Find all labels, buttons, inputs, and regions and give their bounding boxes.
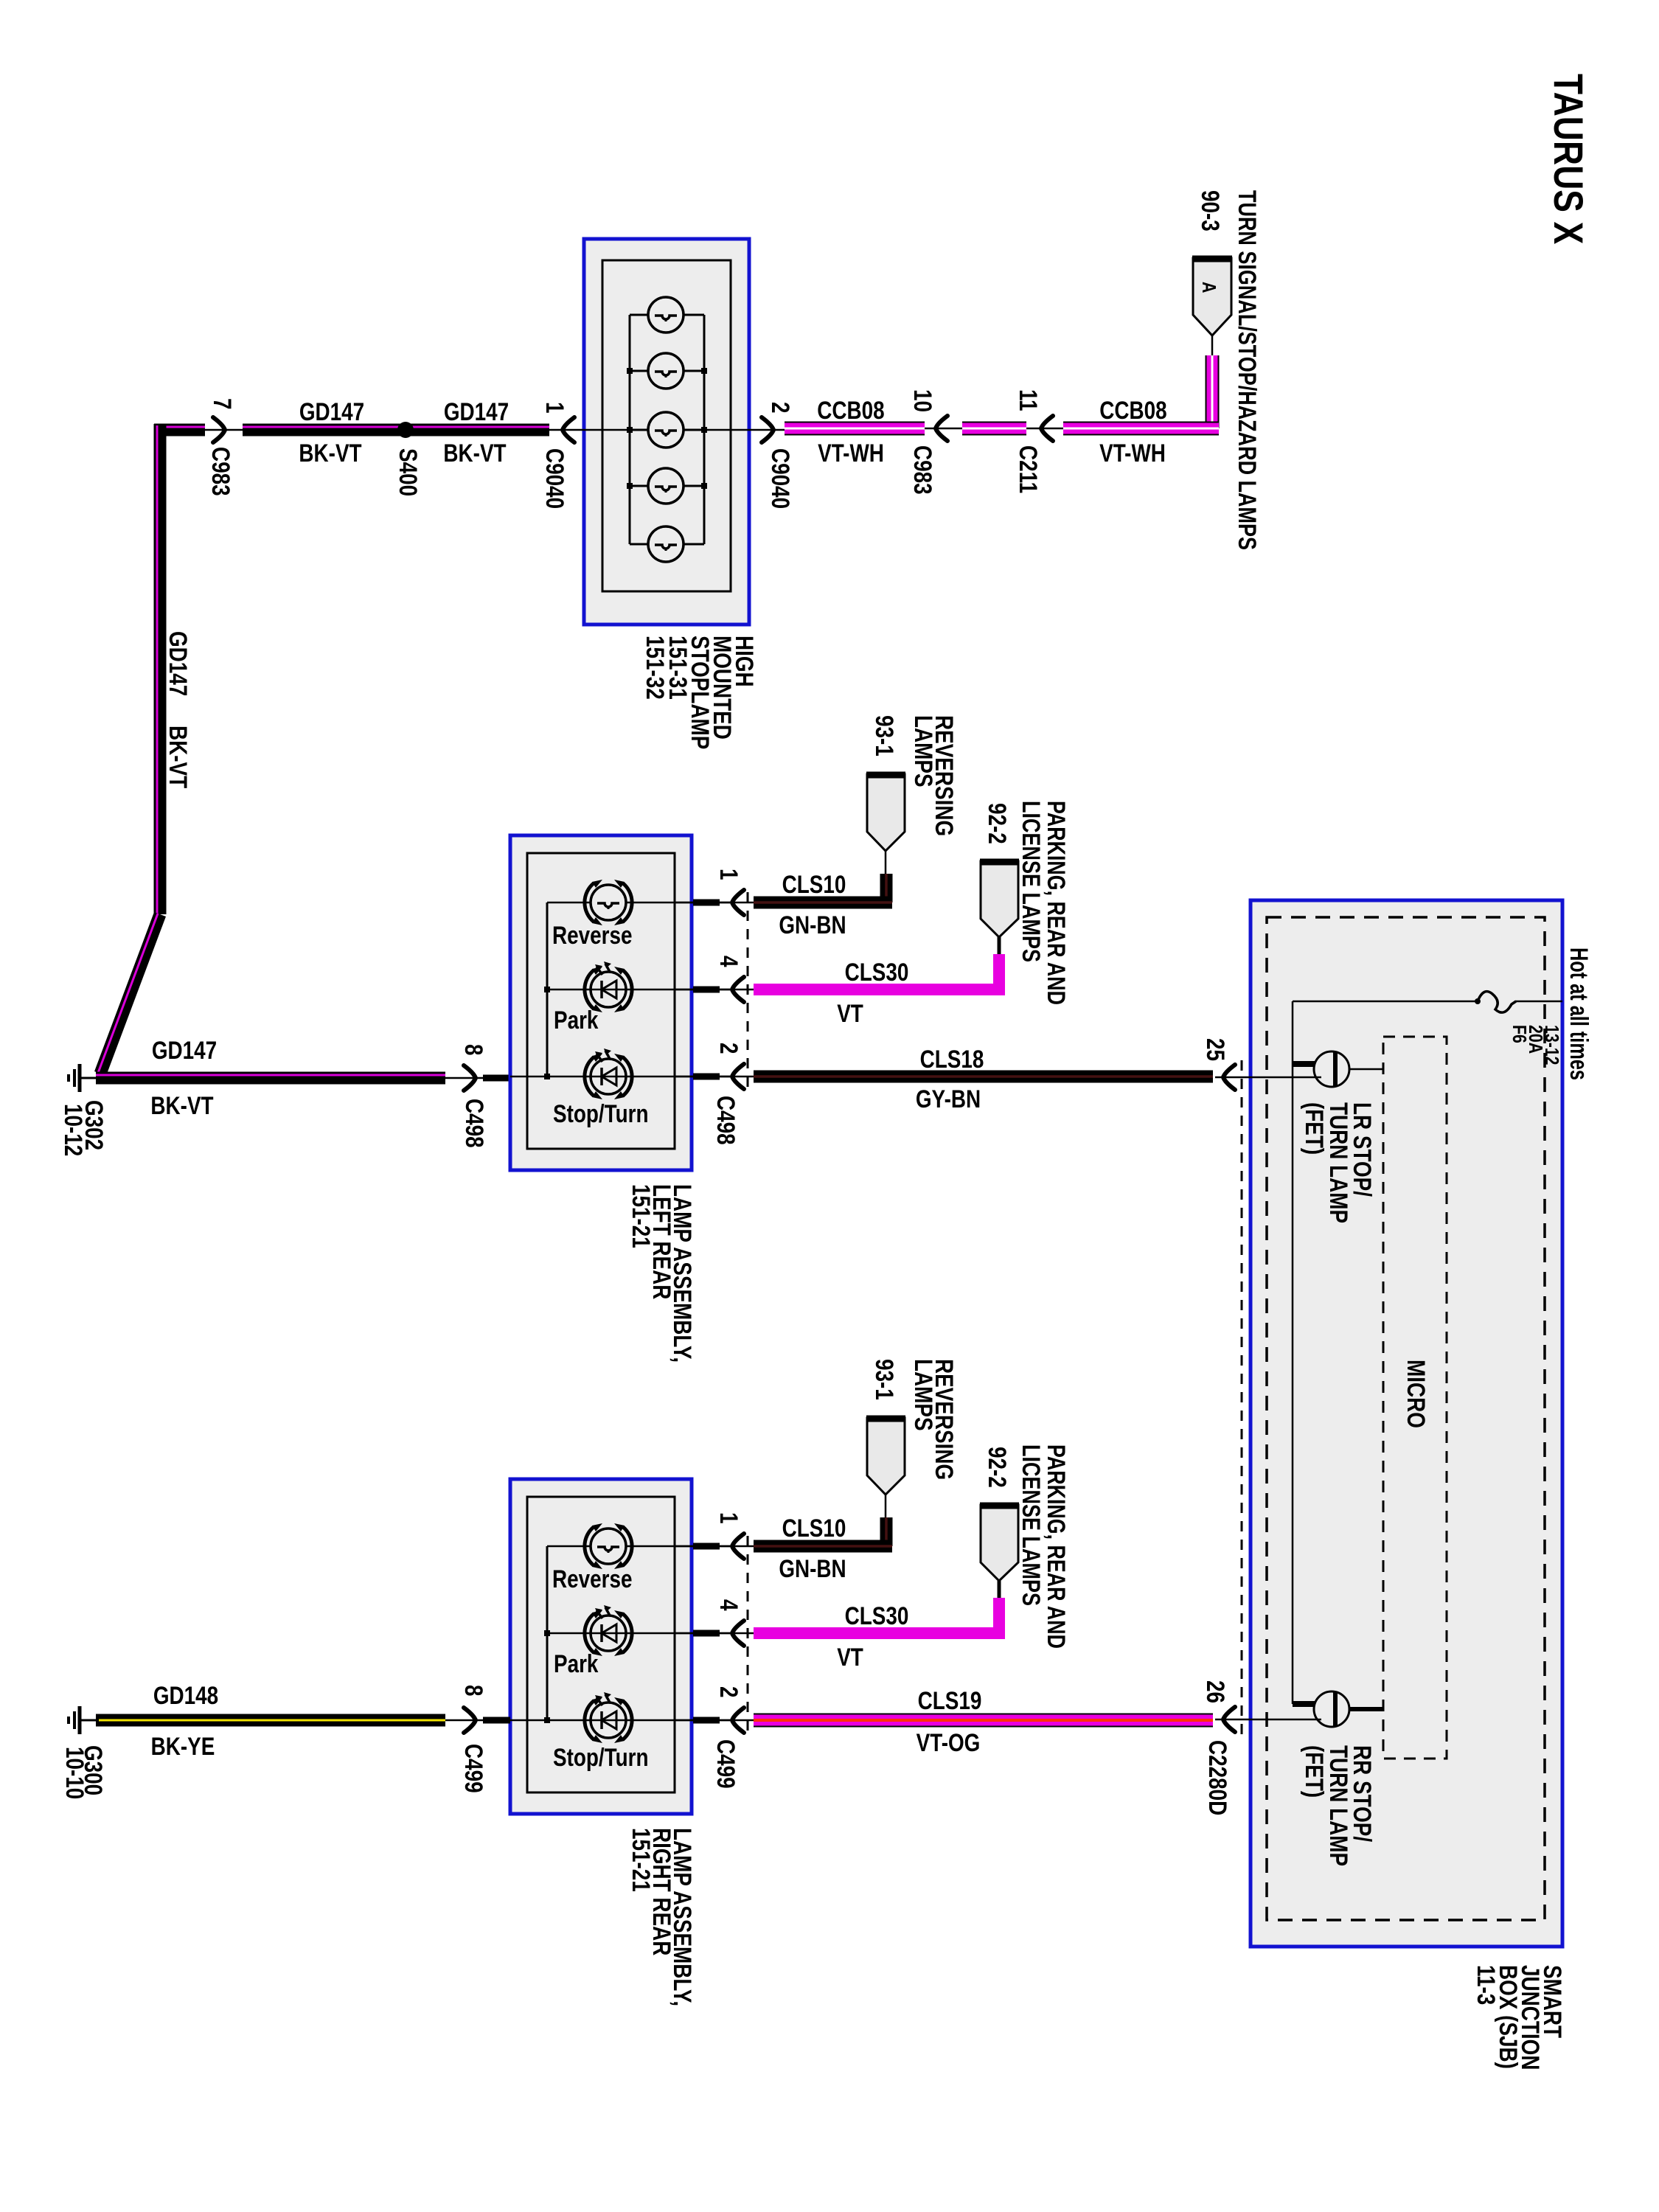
svg-text:93-1: 93-1 [870,715,898,757]
wire CLS30 VT [993,1598,1005,1633]
wire GD147 left vertical [154,424,167,914]
svg-text:C498: C498 [460,1099,488,1148]
wire CCB08 middle segment [962,422,1026,436]
feed line through box [584,429,630,431]
MICRO dashed box [1383,1037,1447,1759]
feed line [1515,1001,1562,1003]
svg-text:(FET): (FET) [1300,1102,1328,1155]
flag: PARKING REAR AND LICENSE LAMPS 92-2 [981,1505,1018,1581]
svg-text:BK-VT: BK-VT [150,1091,213,1119]
svg-text:C498: C498 [712,1096,740,1145]
svg-text:C983: C983 [206,447,234,496]
svg-text:Park: Park [554,1006,599,1034]
svg-text:93-1: 93-1 [870,1359,898,1400]
svg-text:2: 2 [766,402,794,414]
connector dashed line [747,1536,749,1736]
component box: high mounted stoplamp [584,239,749,625]
stop/turn LED [591,1703,626,1738]
bulb lamp y=738 [648,526,684,562]
wire CCB08 VT-WH vertical from flag [1206,355,1220,428]
flag: REVERSING LAMPS 93-1 [867,1418,905,1495]
svg-text:GD147: GD147 [299,397,364,425]
svg-text:TAURUS X: TAURUS X [1545,74,1591,244]
svg-text:VT: VT [837,999,863,1027]
svg-text:BK-VT: BK-VT [299,439,361,467]
svg-text:VT-WH: VT-WH [1099,439,1166,467]
svg-text:PARKING, REAR AND: PARKING, REAR AND [1042,801,1070,1005]
svg-text:GY-BN: GY-BN [916,1085,981,1113]
svg-text:Stop/Turn: Stop/Turn [553,1099,649,1127]
connector arrow 11 / C211 [1026,428,1063,430]
svg-text:CLS10: CLS10 [782,1514,846,1542]
fuse F6 20A 13-12 [1478,992,1516,1013]
feed line to FETs [1293,1001,1478,1003]
connector dashed line [747,892,749,1093]
svg-text:GD147: GD147 [152,1036,217,1064]
svg-text:25: 25 [1201,1038,1229,1061]
svg-text:4: 4 [714,1599,742,1611]
splice S400 [397,422,414,438]
svg-text:CLS10: CLS10 [782,870,846,898]
component box: smart junction box [1251,900,1562,1947]
svg-text:C9040: C9040 [766,448,794,509]
svg-text:LAMPS: LAMPS [909,715,937,787]
svg-text:PARKING, REAR AND: PARKING, REAR AND [1042,1444,1070,1649]
svg-text:TURN SIGNAL/STOP/HAZARD LAMPS: TURN SIGNAL/STOP/HAZARD LAMPS [1233,190,1261,550]
svg-text:GD147: GD147 [444,397,509,425]
svg-text:11-3: 11-3 [1472,1965,1500,2005]
svg-text:C499: C499 [459,1744,487,1793]
svg-text:8: 8 [459,1685,487,1697]
svg-text:CLS30: CLS30 [845,958,909,986]
svg-text:LICENSE LAMPS: LICENSE LAMPS [1017,1444,1045,1606]
svg-text:CLS18: CLS18 [920,1045,984,1073]
ground G300 [78,1706,82,1734]
svg-text:26: 26 [1201,1680,1229,1703]
wire GD147 diagonal [100,914,160,1074]
svg-text:8: 8 [459,1044,487,1056]
svg-text:CLS19: CLS19 [918,1686,982,1714]
pin arrows 1 4 2 [732,1534,744,1559]
connector arrow 8 / C499 [445,1719,483,1722]
ground G302 [78,1064,82,1092]
pin 2 / C9040 [749,429,785,431]
internal bus [546,1546,549,1720]
pin stubs [693,900,720,906]
bulb lamp y=583 [648,412,684,448]
SJB outer dashed boundary [1267,917,1545,1920]
svg-text:BK-VT: BK-VT [443,439,506,467]
svg-text:VT-WH: VT-WH [818,439,884,467]
svg-text:Hot at all times: Hot at all times [1565,947,1593,1080]
wire CLS19 VT-OG [754,1714,1213,1728]
svg-text:CCB08: CCB08 [817,396,884,424]
svg-text:7: 7 [208,398,236,410]
svg-text:10: 10 [908,389,936,412]
junction dots [627,368,633,374]
svg-text:92-2: 92-2 [983,1447,1011,1488]
svg-text:GN-BN: GN-BN [779,911,846,939]
reverse bulb [591,1528,626,1564]
flag: PARKING REAR AND LICENSE LAMPS 92-2 [981,861,1018,937]
svg-text:4: 4 [714,956,742,967]
bulb lamp y=503 [648,353,684,389]
pin stubs [693,1543,720,1550]
svg-text:(FET): (FET) [1300,1745,1328,1798]
svg-text:C983: C983 [908,445,936,495]
svg-text:LAMPS: LAMPS [909,1359,937,1431]
pin arrows 1 4 2 [732,890,744,915]
flag A: turn signal/stop/hazard lamps feed [1193,258,1231,335]
RR STOP/TURN LAMP (FET) [1293,1701,1317,1707]
svg-text:1: 1 [714,1512,742,1524]
svg-text:GD148: GD148 [153,1681,218,1709]
svg-text:Reverse: Reverse [552,1565,632,1593]
connector arrow 8 / C498 [445,1077,483,1079]
svg-text:Reverse: Reverse [552,921,632,949]
svg-text:13-12: 13-12 [1540,1025,1562,1065]
svg-text:MICRO: MICRO [1402,1360,1430,1428]
svg-text:GD147: GD147 [164,631,192,696]
component box: lamp assembly RIGHT REAR [510,1479,692,1814]
svg-text:Stop/Turn: Stop/Turn [553,1743,649,1771]
svg-text:11: 11 [1014,389,1042,411]
park LED [591,1615,626,1651]
svg-text:92-2: 92-2 [983,803,1011,844]
wire GD147 bottom horizontal [96,1072,445,1085]
svg-text:10-12: 10-12 [59,1104,87,1156]
svg-text:151-21: 151-21 [627,1184,655,1248]
park LED [591,972,626,1007]
connector arrow 10 / C983 [925,428,962,430]
svg-text:10-10: 10-10 [60,1747,88,1799]
svg-text:C2280D: C2280D [1203,1740,1231,1815]
row lines [547,1545,730,1548]
svg-text:90-3: 90-3 [1196,190,1224,232]
wire GD147 elbow segment [154,424,205,437]
stop/turn LED [591,1059,626,1094]
wire CLS30 VT [993,954,1005,990]
svg-text:A: A [1197,282,1220,293]
reverse bulb [591,885,626,920]
bulb lamp y=659 [648,468,684,504]
svg-text:1: 1 [540,402,568,414]
SJB connector dashed line C2280D [1241,1060,1243,1734]
lamp bus [629,315,631,544]
svg-text:C211: C211 [1014,445,1042,493]
svg-text:1: 1 [714,869,742,880]
row lines [547,902,730,904]
LR STOP/TURN LAMP (FET) [1293,1061,1317,1067]
pin 1 / C9040 [549,429,584,431]
internal bus [546,902,549,1077]
svg-text:GN-BN: GN-BN [779,1554,846,1582]
svg-text:CLS30: CLS30 [845,1601,909,1630]
wire CLS18 GY-BN [754,1071,1213,1083]
wire GD148 BK-YE [96,1714,445,1727]
component box: lamp assembly LEFT REAR [510,835,692,1170]
wire GD147 BK-VT segment S400 to C9040 [243,424,549,437]
connector arrow 7 / C983 [205,429,243,431]
wire CLS10 GN-BN [880,1517,893,1546]
svg-text:C499: C499 [712,1739,740,1789]
svg-text:VT-OG: VT-OG [917,1728,981,1756]
svg-text:151-21: 151-21 [627,1828,655,1892]
bulb lamp y=427 [648,297,684,333]
flag: REVERSING LAMPS 93-1 [867,774,905,851]
svg-text:C9040: C9040 [540,448,568,509]
svg-text:VT: VT [837,1643,863,1671]
svg-text:BK-VT: BK-VT [164,726,192,788]
svg-text:S400: S400 [394,448,422,496]
svg-text:BK-YE: BK-YE [151,1732,215,1760]
wire: flag stem [1211,335,1214,355]
wire CCB08 left segment [785,422,925,436]
svg-text:LICENSE LAMPS: LICENSE LAMPS [1017,801,1045,962]
wire CCB08 VT-WH horizontal right segment [1063,422,1219,436]
pin 25 arrow [1223,1065,1235,1090]
svg-text:151-32: 151-32 [641,636,669,700]
svg-text:CCB08: CCB08 [1099,396,1166,424]
svg-text:2: 2 [714,1043,742,1054]
pin 26 arrow [1223,1707,1235,1732]
svg-text:2: 2 [714,1686,742,1698]
svg-text:Park: Park [554,1649,599,1677]
wire CLS10 GN-BN [880,874,893,902]
